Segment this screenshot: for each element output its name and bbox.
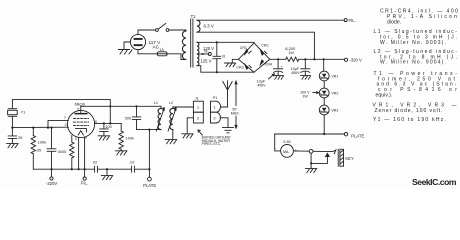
svg-text:PLATE: PLATE xyxy=(143,183,156,188)
svg-text:equiv.).: equiv.). xyxy=(376,93,393,99)
wire plate rail (to tank) xyxy=(81,105,161,107)
svg-text:3: 3 xyxy=(75,137,77,141)
transformer T1 primary winding xyxy=(182,31,186,60)
terminal PLATE (oscillator) xyxy=(143,169,156,188)
zener diode VR2 xyxy=(319,81,338,98)
ground (bridge left vertex) xyxy=(225,59,239,67)
svg-text:100k: 100k xyxy=(126,136,134,140)
svg-text:-320V: -320V xyxy=(46,181,57,186)
svg-text:VR2: VR2 xyxy=(331,92,338,96)
wire 6.3V top lead to FIL terminal xyxy=(197,19,344,21)
terminal -320V (supply) xyxy=(344,58,362,63)
crystal Y1 xyxy=(8,109,26,128)
capacitor .02 (right, plate blocking) xyxy=(129,161,134,173)
svg-text:FIL.: FIL. xyxy=(81,181,88,186)
svg-text:.01: .01 xyxy=(221,55,226,59)
wire tank to output coupling xyxy=(148,130,150,170)
wire P1 pin2 to earth xyxy=(220,118,228,128)
capacitor C2 10uF 450V (second filter) xyxy=(291,58,311,79)
meter M1 0-50 MA xyxy=(275,140,297,157)
switch S1 xyxy=(156,23,169,31)
tube V1 6BQ6 xyxy=(64,102,97,142)
resistor 8,200 1W xyxy=(285,46,299,61)
wire heater pins to bottom rail xyxy=(79,137,85,169)
svg-text:P1: P1 xyxy=(213,96,217,100)
zener diode VR3 xyxy=(319,98,338,115)
wire J1 to ground xyxy=(187,118,193,134)
ground (bottom rail) xyxy=(101,169,113,180)
svg-text:25: 25 xyxy=(18,136,22,140)
svg-text:Y1: Y1 xyxy=(21,111,26,115)
svg-text:.05: .05 xyxy=(36,148,41,152)
antenna xyxy=(220,81,232,107)
svg-text:1W: 1W xyxy=(288,51,294,55)
transformer T1 core xyxy=(191,19,193,67)
inductor L1 (slug-tuned) xyxy=(154,101,165,131)
svg-text:56: 56 xyxy=(204,50,208,54)
wire top rail (crystal to plate node) xyxy=(12,100,110,124)
wire HV bottom lead to bridge bottom xyxy=(197,66,254,73)
node (6.3V return joins rail) xyxy=(313,58,315,60)
wire tank bottom rail xyxy=(137,129,162,131)
wire grid rail xyxy=(12,126,68,128)
svg-text:T1: T1 xyxy=(191,14,197,19)
diode CR4 (bridge lower-right) xyxy=(254,59,272,72)
wire HV top lead to bridge top xyxy=(197,41,254,44)
wire switch to transformer primary xyxy=(169,30,186,31)
diode CR1 (bridge upper-left) xyxy=(239,43,255,59)
splice (open circle) xyxy=(309,149,313,153)
svg-text:500: 500 xyxy=(125,117,131,121)
component list text xyxy=(373,9,459,123)
svg-text:VR3: VR3 xyxy=(331,109,338,113)
wire jack contact to ground xyxy=(311,157,327,163)
ac plug (117 V AC) xyxy=(124,34,146,49)
svg-text:+: + xyxy=(281,65,283,69)
svg-text:100k: 100k xyxy=(38,140,46,144)
svg-text:1A: 1A xyxy=(159,48,164,52)
svg-text:KEY: KEY xyxy=(345,156,354,161)
terminal FIL (oscillator) xyxy=(81,169,88,185)
svg-text:CR1: CR1 xyxy=(240,46,247,50)
wire -320V rail xyxy=(270,58,345,60)
label buried ground radials xyxy=(198,130,231,146)
svg-text:PIPES, ETC.: PIPES, ETC. xyxy=(202,142,222,146)
svg-text:3000: 3000 xyxy=(58,150,66,154)
wire grid drop through .05 xyxy=(51,128,53,170)
wire fuse to transformer primary bottom xyxy=(168,54,186,60)
capacitor 25 (crystal to ground) xyxy=(8,128,22,144)
capacitor .05 (grid) xyxy=(36,148,56,152)
svg-text:-320 V: -320 V xyxy=(350,58,363,63)
svg-text:L1: L1 xyxy=(154,101,158,105)
svg-text:0-50: 0-50 xyxy=(283,140,290,144)
svg-text:CR4: CR4 xyxy=(265,62,272,66)
svg-text:5: 5 xyxy=(77,107,79,111)
wire plug bottom to fuse xyxy=(138,50,156,54)
svg-text:.02: .02 xyxy=(129,161,134,165)
svg-text:MAX.: MAX. xyxy=(231,111,240,115)
capacitor .02 (left, filament bypass) xyxy=(92,161,97,173)
svg-text:125 V: 125 V xyxy=(201,59,212,64)
wire tube grid pin 7 xyxy=(48,121,68,128)
capacitor .01 across HV winding xyxy=(213,41,226,73)
svg-text:SeekIC.com: SeekIC.com xyxy=(412,177,457,187)
svg-text:.02: .02 xyxy=(92,161,97,165)
svg-text:CR3: CR3 xyxy=(236,66,243,70)
key jack J2 (KEY) xyxy=(324,149,354,166)
svg-text:1W: 1W xyxy=(302,94,308,98)
wire cathode pin xyxy=(71,136,73,142)
label 100 V 1W with arrow to VR2 xyxy=(300,91,318,99)
svg-text:diode.: diode. xyxy=(387,19,401,25)
svg-text:VR1: VR1 xyxy=(331,75,338,79)
ground (25 cap) xyxy=(7,144,19,148)
svg-text:J1: J1 xyxy=(195,96,199,100)
wire plug top to switch xyxy=(138,30,155,34)
ground (100 cap) xyxy=(98,136,110,140)
svg-text:W. Miller No. 9003).: W. Miller No. 9003). xyxy=(380,40,446,46)
wire zener chain to PLATE rail xyxy=(323,115,325,134)
wire splice to key jack tip xyxy=(313,150,324,152)
svg-text:7: 7 xyxy=(64,116,66,120)
svg-text:6.3 V: 6.3 V xyxy=(204,24,214,29)
wire rail down to meter xyxy=(275,134,281,151)
resistor 100k (grid leak) xyxy=(31,128,46,170)
label 117 V AC xyxy=(149,40,162,50)
dimension 50' MAX. xyxy=(231,81,240,128)
ground (antenna earth) xyxy=(222,128,233,133)
svg-text:W. Miller No. 9004).: W. Miller No. 9004). xyxy=(380,60,446,66)
wire 6.3V bottom lead (down to -320V rail) xyxy=(197,32,314,59)
diode CR3 (bridge lower-left) xyxy=(236,59,254,72)
capacitor 100 (screen bypass) xyxy=(100,123,112,135)
svg-text:100: 100 xyxy=(105,125,111,129)
fuse 1A xyxy=(156,48,168,56)
ground (J1) xyxy=(182,134,193,138)
svg-text:PLATE: PLATE xyxy=(351,133,364,138)
inductor L2 (slug-tuned) xyxy=(168,101,193,140)
capacitor C1 10uF 450V (first filter) xyxy=(257,58,284,87)
connector J1 xyxy=(193,96,203,123)
ground (screen resistor) xyxy=(115,151,127,155)
svg-text:CR2: CR2 xyxy=(261,43,268,47)
wire screen pin 6 xyxy=(95,122,122,124)
ground (L2 bottom) xyxy=(165,140,177,144)
terminal PLATE (supply) xyxy=(344,133,364,139)
svg-text:L2: L2 xyxy=(169,101,173,105)
capacitor 500 (tank) xyxy=(125,106,141,129)
svg-text:450V: 450V xyxy=(291,71,300,75)
transformer T1 HV secondary winding 125V-0-125V xyxy=(197,42,199,65)
ground (key jack) xyxy=(305,169,316,173)
ground (plug safety ground) xyxy=(119,50,133,55)
zener diode VR1 xyxy=(319,58,338,81)
svg-text:450V: 450V xyxy=(257,83,266,87)
transformer T1 6.3V secondary winding xyxy=(197,20,200,32)
wire meter to splice xyxy=(293,150,309,152)
wire bottom rail (oscillator) xyxy=(33,168,149,170)
resistor 100k (screen) xyxy=(119,123,134,150)
svg-text:2: 2 xyxy=(65,123,67,127)
diode CR2 (bridge upper-right) xyxy=(254,43,270,59)
terminal -320V (oscillator) xyxy=(46,169,57,186)
terminal FIL (supply) xyxy=(344,18,356,23)
connector P1 xyxy=(211,96,221,123)
svg-text:MA.: MA. xyxy=(283,150,289,154)
wire PLATE rail xyxy=(275,133,345,135)
HV center tap with open terminal xyxy=(197,50,211,56)
svg-text:6BQ6: 6BQ6 xyxy=(75,102,86,107)
wire plate pin 5 xyxy=(80,106,82,113)
resistor 3000 (cathode) xyxy=(58,142,74,169)
svg-text:FIL.: FIL. xyxy=(349,18,356,23)
svg-text:Zener diode, 100 volt.: Zener diode, 100 volt. xyxy=(375,108,443,114)
